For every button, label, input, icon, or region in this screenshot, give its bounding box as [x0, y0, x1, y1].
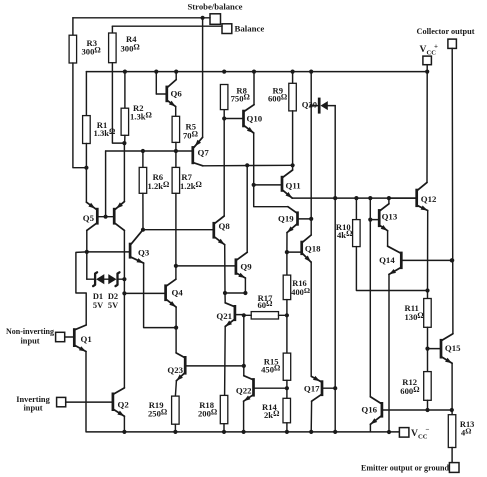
wire: [286, 380, 288, 398]
svg-text:Q9: Q9: [240, 262, 252, 272]
resistor R18: [198, 395, 228, 423]
wire Q21 emitter down to R18: [224, 327, 227, 396]
junction dot: [174, 70, 178, 74]
junction dot: [387, 430, 391, 434]
wire Q17 collector down to ground bus: [310, 401, 312, 432]
node ground bus (Vcc- rail): [86, 352, 399, 432]
transistor Q12: [389, 182, 437, 210]
wire Q9 collector up: [246, 165, 248, 252]
transistor Q22: [236, 376, 287, 402]
resistor R11: [405, 291, 432, 328]
svg-text:Q23: Q23: [167, 365, 183, 375]
junction dot: [425, 70, 429, 74]
resistor R3: [69, 18, 101, 63]
transistor Q3: [129, 230, 150, 263]
junction dot: [242, 430, 246, 434]
diode D1 (5V zener): [87, 272, 105, 310]
svg-text:Q3: Q3: [138, 248, 150, 258]
svg-text:D1: D1: [93, 292, 103, 301]
node Vcc+ terminal: [420, 43, 439, 65]
transistor Q6: [156, 80, 182, 107]
svg-text:Q2: Q2: [118, 400, 130, 410]
wire R1 bottom to Q5 emitter: [85, 144, 87, 203]
transistor Q18: [287, 235, 321, 262]
svg-text:Collector output: Collector output: [417, 27, 475, 36]
wire Vcc+ to Q20: [310, 72, 312, 219]
wire Q20 to Q12 base node: [334, 106, 336, 199]
wire Q5 left collector down: [86, 230, 88, 252]
junction dot: [252, 70, 256, 74]
svg-text:D2: D2: [108, 292, 118, 301]
node Strobe/balance terminal: [188, 2, 243, 25]
wire: [112, 25, 222, 27]
wire Q11 emitter to Q12 base: [292, 197, 415, 199]
transistor Q4: [124, 279, 183, 307]
node Vcc+ bus: [86, 71, 427, 73]
resistor R2: [121, 72, 152, 136]
junction dot: [123, 70, 127, 74]
wire Q5 right collector down (node to D2, Q4 base, Q2 collector): [123, 230, 125, 388]
wire R10 bottom to R11 top node: [356, 247, 427, 291]
node Non-inverting input terminal: [6, 327, 65, 346]
junction dot: [85, 250, 89, 254]
resistor R6: [139, 151, 169, 193]
transistor Q14: [379, 246, 452, 274]
junction dot: [425, 288, 429, 292]
wire Q8 collector up to R8: [223, 110, 225, 216]
wire Q8 base from Q3 collector node: [143, 229, 213, 231]
junction dot: [354, 196, 358, 200]
junction dot: [387, 196, 391, 200]
wire Q16 emitter to ground bus: [369, 424, 371, 432]
resistor R14: [262, 398, 291, 423]
wire Q18 emitter down to Q17 emitter: [310, 262, 312, 377]
wire R16 bottom to R17/R15 node: [286, 300, 288, 354]
junction dot: [425, 408, 429, 412]
svg-text:Non-inverting: Non-inverting: [6, 327, 55, 336]
wire Q21 base node down to Q23 base: [243, 315, 245, 366]
wire: [426, 65, 428, 72]
junction dot: [122, 291, 126, 295]
wire Q12 base node down to Q17 base: [334, 198, 336, 432]
svg-text:Q16: Q16: [361, 405, 377, 415]
junction dot: [174, 264, 178, 268]
transistor Q19: [278, 207, 311, 233]
wire Q9 emitter down: [244, 278, 246, 293]
resistor R8: [220, 85, 249, 110]
svg-text:Q6: Q6: [171, 89, 183, 99]
junction dot: [285, 386, 289, 390]
wire Q5 base to Q7 base: [106, 150, 192, 152]
junction dot: [104, 215, 108, 219]
junction dot: [201, 16, 205, 20]
transistor Q16: [361, 397, 451, 425]
wire Q6 base from bus: [155, 72, 157, 94]
wire Q5 base up: [105, 151, 107, 217]
junction dot: [450, 258, 454, 262]
junction dot: [333, 386, 337, 390]
svg-text:input: input: [20, 336, 39, 345]
wire Q1 collector jog up to Q5 collector node: [76, 252, 87, 325]
svg-text:Q14: Q14: [379, 255, 395, 265]
junction dot: [285, 430, 289, 434]
wire: [286, 423, 288, 432]
resistor R17: [244, 293, 287, 319]
wire: [104, 278, 108, 280]
svg-text:Q19: Q19: [278, 214, 294, 224]
junction dot: [309, 430, 313, 434]
svg-text:Q20: Q20: [302, 100, 317, 110]
wire Q21 collector up: [224, 293, 226, 303]
wire Q10 collector to bus: [253, 72, 255, 105]
junction dot: [368, 196, 372, 200]
transistor Q5 (dual PNP pair): [83, 202, 125, 231]
junction dot: [309, 70, 313, 74]
wire Q12 emitter down to R11: [427, 211, 429, 291]
junction dot: [222, 70, 226, 74]
junction dot: [122, 141, 126, 145]
wire: [451, 448, 453, 463]
wire: [223, 424, 225, 432]
svg-text:Q18: Q18: [305, 244, 321, 254]
wire Q13 collector up: [388, 198, 390, 204]
junction dot: [368, 218, 372, 222]
svg-text:Q1: Q1: [81, 334, 92, 344]
svg-text:Q15: Q15: [445, 343, 461, 353]
transistor Q1: [73, 325, 92, 352]
wire Q11 collector up: [292, 165, 294, 170]
transistor Q17 (PNP): [304, 376, 335, 401]
svg-text:Q4: Q4: [172, 288, 184, 298]
transistor Q10: [224, 105, 263, 133]
junction dot: [84, 166, 88, 170]
wire Q7 collector to Q11 collector node: [203, 164, 293, 167]
svg-text:Q10: Q10: [247, 114, 263, 124]
junction dot: [450, 408, 454, 412]
svg-text:Emitter output or ground: Emitter output or ground: [361, 464, 449, 473]
wire R4 bottom to R2 node: [112, 63, 124, 143]
wire Q22 emitter down: [243, 401, 245, 432]
svg-text:+: +: [434, 43, 438, 51]
svg-text:Q13: Q13: [382, 211, 398, 221]
junction dot: [174, 149, 178, 153]
resistor R10: [336, 198, 360, 247]
junction dot: [333, 430, 337, 434]
wire Q4 emitter down to Q23 collector: [175, 307, 177, 353]
junction dot: [141, 228, 145, 232]
wire R7 bottom to Q4 collector: [175, 193, 177, 279]
wire Collector output down to Q15 collector: [451, 48, 454, 333]
junction dot: [310, 104, 313, 107]
svg-text:Q11: Q11: [286, 181, 301, 191]
resistor R19: [148, 396, 179, 424]
junction dot: [285, 250, 289, 254]
wire Q6 emitter to R5: [175, 107, 177, 117]
junction dot: [122, 430, 126, 434]
junction dot: [222, 430, 226, 434]
junction dot: [242, 313, 246, 317]
wire Q3 base from Q5 left collector node: [87, 251, 129, 253]
svg-text:Q5: Q5: [83, 213, 95, 223]
junction dot: [333, 196, 337, 200]
svg-text:5V: 5V: [108, 301, 118, 310]
transistor Q13: [370, 204, 398, 231]
wire Q12 collector to Vcc+: [426, 72, 428, 183]
svg-text:Q12: Q12: [421, 194, 437, 204]
resistor R1: [83, 72, 116, 144]
junction dot: [291, 163, 295, 167]
wire Q2 emitter to ground bus: [123, 416, 125, 432]
resistor R13: [448, 415, 474, 448]
resistor R9: [268, 72, 296, 111]
node Collector output terminal: [417, 27, 475, 48]
transistor Q11: [254, 170, 301, 198]
svg-text:−: −: [426, 426, 430, 434]
svg-text:Balance: Balance: [235, 23, 265, 33]
wire: [124, 135, 126, 143]
transistor Q2: [112, 388, 130, 416]
wire R3 bottom to R1 node: [73, 63, 87, 168]
wire: [86, 252, 88, 279]
wire Q13 base node vertical to Q16 collector: [369, 198, 371, 397]
wire Q10 emitter down to Q11 base node: [254, 133, 288, 207]
junction dot: [291, 70, 295, 74]
wire Q18 collector to Q19 base: [310, 219, 312, 235]
wire: [427, 327, 429, 348]
wire Q8 emitter down: [224, 245, 226, 293]
junction dot: [450, 258, 454, 262]
wire Q23 emitter to R19: [175, 381, 176, 396]
wire: [175, 142, 177, 151]
transistor Q7 (PNP): [191, 137, 209, 166]
wire: [118, 278, 125, 280]
diode D2 (5V zener): [108, 272, 120, 310]
junction dot: [173, 430, 177, 434]
node Emitter output terminal: [361, 463, 459, 473]
wire R6 bottom to Q3 collector node: [142, 193, 144, 229]
junction dot: [425, 347, 429, 351]
wire R9 bottom to Q11 collector node: [292, 111, 294, 165]
wire Q22 collector up to Q21 base node: [243, 366, 245, 376]
node Balance terminal: [222, 23, 264, 33]
junction dot: [174, 326, 178, 330]
svg-text:Strobe/balance: Strobe/balance: [188, 2, 243, 12]
transistor Q8: [212, 216, 230, 245]
node Inverting input terminal: [16, 395, 65, 413]
svg-text:Q21: Q21: [216, 311, 232, 321]
svg-text:V: V: [420, 44, 427, 55]
junction dot: [141, 149, 145, 153]
transistor Q23: [167, 353, 243, 381]
junction dot: [223, 291, 227, 295]
transistor Q9: [176, 252, 252, 278]
wire strobe vertical to Q7 emitter: [202, 18, 204, 138]
junction dot: [122, 277, 126, 281]
junction dot: [222, 116, 226, 120]
junction dot: [285, 313, 289, 317]
svg-text:input: input: [23, 403, 42, 412]
wire to Q5 right emitter: [123, 143, 125, 202]
svg-text:Q7: Q7: [198, 148, 210, 158]
wire: [427, 400, 429, 410]
resistor R4: [109, 26, 140, 63]
wire Q8/Q9 emitters join: [225, 292, 245, 294]
wire Q19 emitter down to R16 node: [286, 233, 288, 253]
wire inverting input to Q2 base: [66, 401, 112, 403]
resistor R15: [261, 353, 291, 380]
resistor R7: [172, 151, 202, 193]
svg-text:V: V: [411, 428, 418, 439]
wire: [174, 424, 176, 432]
wire Q14 emitter down to ground bus: [388, 274, 390, 432]
node Vcc- terminal: [399, 426, 429, 441]
junction dot: [252, 183, 256, 187]
wire Q3 emitter down to Q4 emitter node: [144, 263, 177, 328]
svg-text:Q17: Q17: [304, 384, 320, 394]
junction dot: [245, 163, 249, 167]
svg-text:Q8: Q8: [219, 221, 231, 231]
junction dot: [242, 364, 246, 368]
transistor Q15: [428, 334, 462, 364]
transistor Q21: [216, 303, 243, 327]
junction dot: [309, 217, 313, 221]
resistor R5: [172, 116, 198, 142]
wire Q13 emitter to Q14 collector: [387, 231, 389, 247]
wire: [65, 336, 74, 338]
wire Q15 emitter down to R13: [451, 363, 453, 415]
svg-text:CC: CC: [418, 434, 428, 441]
svg-text:Q22: Q22: [236, 385, 252, 395]
transistor Q20 (diode-connected): [302, 98, 335, 114]
resistor R16: [283, 252, 310, 300]
wire: [73, 17, 210, 19]
resistor R12: [400, 349, 431, 401]
junction dot: [243, 291, 247, 295]
junction dot: [154, 70, 158, 74]
wire Q6 collector to bus: [175, 72, 177, 80]
svg-text:5V: 5V: [93, 301, 103, 310]
